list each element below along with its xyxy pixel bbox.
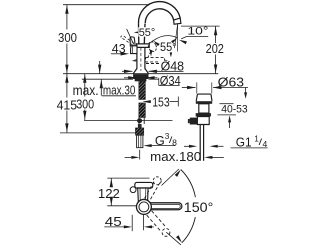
faucet body column bbox=[133, 47, 148, 73]
G3/8 hose nut bbox=[138, 124, 142, 128]
drain side port bbox=[190, 118, 198, 125]
faucet spout gooseneck arc bbox=[138, 2, 180, 24]
swivel angle ray bbox=[149, 40, 153, 44]
ext line flange bottom bbox=[220, 103, 234, 105]
ext line: 415 bottom level bbox=[60, 132, 135, 134]
spout left leg bbox=[138, 23, 140, 44]
drain locknut bbox=[196, 113, 211, 116]
drain tailpipe bbox=[199, 125, 201, 161]
dashed leader to diam 48 bbox=[146, 63, 160, 65]
thread G1 1/4 tailpipe bbox=[184, 145, 189, 147]
lever handle arm bbox=[130, 37, 135, 46]
label 150 deg bbox=[183, 199, 214, 213]
hose connector dot bbox=[137, 118, 142, 123]
ext line: outlet level bbox=[181, 25, 220, 27]
svg-text:8: 8 bbox=[172, 138, 177, 148]
dim diam 48 base bbox=[122, 70, 132, 72]
top view: center line bbox=[107, 205, 137, 207]
dim 122 bbox=[110, 178, 112, 185]
counter deck top bbox=[63, 73, 218, 75]
dim max.30 deck thickness bbox=[99, 61, 101, 74]
lever dashed tilted position bbox=[121, 37, 133, 45]
top view: ext line handle tip level bbox=[107, 177, 149, 179]
top view: body circle bbox=[136, 199, 151, 214]
svg-text:415: 415 bbox=[57, 98, 78, 113]
svg-text:Ø63: Ø63 bbox=[218, 74, 245, 89]
spout aerator tip (10 deg) bbox=[174, 18, 181, 24]
swivel rays bbox=[162, 169, 179, 186]
supply tube bbox=[137, 135, 143, 148]
small down arrow onto dashed spout bbox=[150, 50, 153, 57]
dim 415 bbox=[66, 74, 68, 98]
svg-text:40-53: 40-53 bbox=[221, 104, 248, 116]
svg-text:300: 300 bbox=[76, 97, 94, 112]
svg-text:max.180: max.180 bbox=[150, 150, 201, 164]
dim 153 shank length bbox=[142, 100, 150, 103]
dim diam 34 shank bbox=[124, 77, 137, 79]
dim max.180 bbox=[125, 156, 132, 158]
dim 300 (height above deck) bbox=[66, 5, 68, 30]
top view: handle cap bar bbox=[135, 182, 153, 188]
counter deck bottom bbox=[82, 78, 133, 80]
dashed swiveled spout end bbox=[147, 40, 158, 52]
drain lower body bbox=[197, 117, 209, 125]
top view: handle stem bbox=[138, 188, 148, 201]
svg-text:10°: 10° bbox=[187, 26, 208, 38]
top view: spout bar bbox=[144, 203, 182, 210]
body hidden centerline bbox=[140, 48, 142, 72]
body side nub bbox=[132, 59, 137, 62]
dashed connector to box bbox=[148, 52, 151, 57]
ext line: spout top level bbox=[63, 4, 149, 6]
threaded shank (hatched) bbox=[139, 81, 146, 99]
dashed spout position lower bbox=[152, 211, 167, 228]
leader arrow from 63 down bbox=[245, 88, 247, 93]
svg-text:G1: G1 bbox=[236, 135, 252, 150]
svg-text:55°: 55° bbox=[139, 27, 156, 39]
angle 10 deg outlet bbox=[177, 24, 179, 51]
body collar bbox=[137, 44, 150, 48]
dim max.300 bbox=[84, 74, 86, 97]
svg-text:Ø48: Ø48 bbox=[161, 59, 185, 74]
thread G3/8 supply hose bbox=[144, 144, 152, 147]
dashed swiveled spout tip box bbox=[146, 57, 165, 62]
drain upper body bbox=[199, 104, 209, 113]
drain flange plate bbox=[196, 101, 212, 104]
swivel arc 150 deg bbox=[181, 170, 196, 198]
leader arrow below 55 deg bbox=[170, 52, 172, 53]
drain plug dome bbox=[196, 94, 212, 101]
svg-text:4: 4 bbox=[263, 139, 268, 149]
angle 55 deg swivel arc bbox=[154, 36, 178, 41]
top view: handle side knob bbox=[130, 187, 136, 193]
ext lines flange bbox=[196, 82, 198, 93]
svg-text:300: 300 bbox=[58, 30, 77, 45]
mounting nut bbox=[135, 79, 147, 81]
dashed spout position upper bbox=[151, 182, 161, 199]
svg-text:150°: 150° bbox=[184, 200, 214, 215]
svg-text:122: 122 bbox=[98, 186, 120, 201]
svg-text:202: 202 bbox=[206, 41, 224, 56]
svg-text:153: 153 bbox=[152, 94, 170, 109]
lever boss bbox=[131, 46, 137, 54]
angle 55 deg lever bbox=[127, 29, 134, 45]
mounting flange under deck bbox=[133, 74, 148, 79]
svg-text:G: G bbox=[155, 133, 165, 148]
dim 202 outlet height bbox=[215, 26, 217, 43]
ext line: hose end level bbox=[84, 119, 173, 121]
svg-text:55°: 55° bbox=[160, 41, 177, 54]
